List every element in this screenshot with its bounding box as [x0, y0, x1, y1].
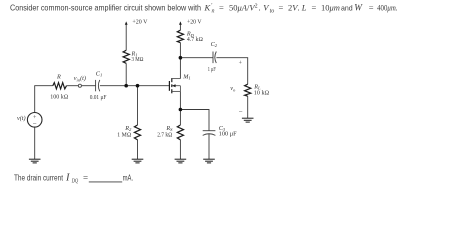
wire: v(t) bottom lead to ground [34, 127, 36, 159]
node B (R2 top / gate wire junction) [136, 84, 140, 88]
resistor R2 (1 M) [134, 125, 140, 140]
title text [10, 3, 398, 15]
svg-text:−: − [239, 107, 243, 115]
svg-text:C1: C1 [96, 71, 102, 78]
wire: C3 bottom plate to ground [208, 134, 210, 159]
node vin (open circle) [78, 84, 81, 87]
wire: C1 right plate to MOSFET gate [100, 85, 169, 87]
wire: RS bottom to ground [179, 140, 181, 159]
svg-text:v(t): v(t) [17, 115, 26, 122]
wire: C2 right plate to output corner and down to RL [216, 58, 247, 84]
node A (R1 bottom / gate wire junction) [124, 84, 128, 88]
svg-text:n: n [212, 9, 215, 15]
svg-text:DQ: DQ [71, 177, 79, 184]
svg-text:400μm.: 400μm. [377, 3, 397, 13]
resistor RL (10 k) [245, 84, 251, 96]
svg-text:+20 V: +20 V [187, 20, 202, 26]
resistor RS (2.7 k) [177, 125, 183, 140]
svg-text:The drain current: The drain current [14, 173, 64, 182]
node source junction [179, 108, 183, 112]
svg-text:R2: R2 [124, 125, 132, 132]
svg-text:1 MΩ: 1 MΩ [117, 132, 131, 138]
node drain junction [179, 56, 183, 60]
svg-text:50μA/V: 50μA/V [229, 3, 256, 13]
ground (under v(t)) [29, 159, 41, 163]
wire: drain node down to MOSFET drain stub [179, 58, 181, 79]
svg-text:−: − [33, 120, 37, 128]
bottom question text [14, 172, 133, 184]
svg-text:2V.: 2V. [288, 3, 300, 13]
power +20V arrow (left rail) [125, 21, 128, 24]
wire: source node right and down to C3 [180, 110, 209, 131]
svg-text:+: + [239, 61, 243, 67]
ground (under R2) [132, 159, 144, 163]
svg-text:=: = [83, 172, 88, 182]
svg-text:and: and [341, 4, 353, 13]
wire: v(t) top lead up to gate-line corner [35, 86, 53, 113]
svg-text:+20 V: +20 V [132, 19, 148, 25]
ground (under C3) [203, 159, 215, 163]
svg-text:to: to [270, 9, 275, 15]
capacitor C1 [96, 80, 100, 91]
wire: source node to RS top [179, 110, 181, 126]
svg-text:RS: RS [165, 125, 173, 132]
wire: +20V arrow to RD top [179, 24, 181, 31]
svg-text:L: L [301, 3, 307, 13]
svg-text:K: K [204, 3, 212, 13]
resistor RD (4.7 k) [177, 30, 183, 43]
svg-text:1 μF: 1 μF [208, 67, 216, 73]
wire: vin node to C1 left plate [82, 85, 96, 87]
wire: R1 bottom to gate node [125, 63, 127, 85]
svg-text:=: = [279, 3, 284, 13]
power +20V arrow (right rail) [179, 21, 182, 24]
svg-text:mA.: mA. [123, 174, 134, 183]
svg-text:vin(t): vin(t) [74, 75, 86, 82]
M1 body arrowhead [172, 84, 176, 87]
svg-text:100 μF: 100 μF [219, 131, 238, 137]
capacitor C2 [213, 52, 216, 64]
svg-text:C2: C2 [211, 41, 218, 48]
wire: RD bottom to drain node [179, 43, 181, 58]
svg-text:100 kΩ: 100 kΩ [50, 95, 68, 101]
ground (under RL) [242, 118, 254, 122]
wire: +20V arrow to R1 top [125, 24, 127, 51]
svg-text:W: W [354, 4, 363, 14]
svg-text:2: 2 [255, 3, 258, 9]
transistor M1 (NMOS) [169, 78, 171, 93]
svg-text:I: I [65, 172, 70, 183]
svg-text:R: R [56, 73, 61, 80]
svg-text:4.7 kΩ: 4.7 kΩ [187, 37, 203, 43]
wire: R2 bottom to ground [137, 140, 139, 159]
svg-text:2.7 kΩ: 2.7 kΩ [157, 132, 172, 138]
voltage source v(t) [27, 113, 42, 128]
svg-text:10 kΩ: 10 kΩ [254, 90, 269, 96]
wire: RL bottom to RL ground [247, 96, 249, 118]
svg-text:3 MΩ: 3 MΩ [132, 57, 144, 63]
svg-text:10μm: 10μm [321, 3, 340, 13]
wire: gate node down to R2 top [137, 86, 139, 125]
svg-text:0.01 μF: 0.01 μF [90, 95, 107, 101]
svg-text:M1: M1 [182, 73, 190, 80]
svg-text:Consider common-source amplifi: Consider common-source amplifier circuit… [10, 4, 201, 13]
wire: MOSFET source stub down to source node [179, 91, 181, 109]
svg-text:vo: vo [230, 85, 236, 92]
wire: drain node to C2 left plate [180, 57, 213, 59]
ground (under RS) [175, 159, 187, 163]
capacitor C3 [203, 131, 216, 136]
resistor R1 (3 M) [123, 50, 129, 63]
wire: R right lead to vin node [67, 85, 79, 87]
svg-text:.: . [259, 3, 261, 13]
svg-text:=: = [219, 3, 224, 13]
svg-text:=: = [369, 3, 374, 13]
resistor R (100 k) horizontal [53, 83, 67, 89]
svg-text:=: = [312, 3, 317, 13]
